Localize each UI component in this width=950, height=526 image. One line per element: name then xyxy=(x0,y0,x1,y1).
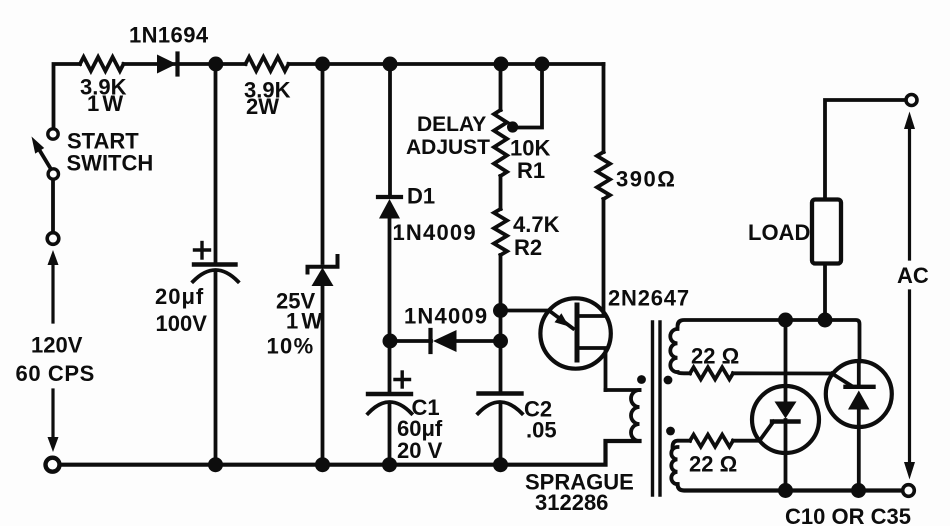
svg-text:312286: 312286 xyxy=(535,490,608,515)
svg-text:C10 OR C35: C10 OR C35 xyxy=(785,504,911,526)
svg-text:120V: 120V xyxy=(31,333,83,358)
svg-text:DELAY: DELAY xyxy=(417,113,486,136)
svg-text:AC: AC xyxy=(897,263,929,288)
svg-text:SWITCH: SWITCH xyxy=(67,151,154,176)
svg-text:D1: D1 xyxy=(407,184,435,209)
svg-text:4.7K: 4.7K xyxy=(513,212,560,237)
svg-text:10K: 10K xyxy=(510,136,550,161)
svg-text:ADJUST: ADJUST xyxy=(406,136,490,159)
svg-text:22 Ω: 22 Ω xyxy=(689,452,737,477)
svg-text:R1: R1 xyxy=(517,158,545,183)
svg-text:LOAD: LOAD xyxy=(748,220,810,245)
svg-text:390Ω: 390Ω xyxy=(616,167,676,192)
svg-text:1 W: 1 W xyxy=(286,309,322,334)
svg-text:60 CPS: 60 CPS xyxy=(16,361,95,386)
svg-text:20 V: 20 V xyxy=(397,438,443,463)
svg-text:2N2647: 2N2647 xyxy=(608,286,690,311)
svg-text:22 Ω: 22 Ω xyxy=(691,344,739,369)
svg-text:1N4009: 1N4009 xyxy=(404,304,488,329)
svg-text:100V: 100V xyxy=(156,311,208,336)
svg-text:10%: 10% xyxy=(267,334,315,359)
svg-text:20μf: 20μf xyxy=(155,284,204,309)
svg-text:.05: .05 xyxy=(526,418,557,443)
svg-text:1 W: 1 W xyxy=(87,91,123,116)
svg-text:R2: R2 xyxy=(514,235,542,260)
svg-text:1N4009: 1N4009 xyxy=(393,220,477,245)
svg-text:1N1694: 1N1694 xyxy=(129,23,209,48)
svg-text:2W: 2W xyxy=(246,94,279,119)
